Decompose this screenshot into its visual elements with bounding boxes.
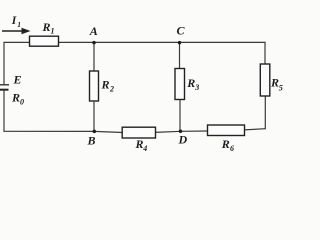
svg-text:6: 6 [230,144,234,153]
current arrow I1 [2,28,31,34]
node D [178,130,188,147]
svg-text:E: E [13,73,22,87]
svg-text:1: 1 [51,27,55,36]
node A [89,24,98,44]
svg-text:1: 1 [17,20,21,29]
svg-text:R: R [135,137,144,151]
svg-text:D: D [178,133,188,147]
wire: node C down to R3 [179,42,181,69]
label R0 (internal resistance) [11,91,24,107]
wire: bottom from left corner to R4 [3,131,123,132]
resistor R3 [175,69,199,100]
wire: node A down to R2 [93,42,95,71]
svg-text:A: A [89,24,98,38]
wire: left branch lower (source bottom) [3,90,5,132]
svg-text:R: R [11,91,20,105]
battery E (voltage source) [0,73,22,90]
svg-text:R: R [270,75,279,89]
resistor R5 [260,64,283,96]
svg-text:B: B [87,134,96,148]
wire: right branch upper (corner to R5) [264,42,266,65]
resistor R1 [30,20,59,46]
svg-text:R: R [186,76,195,90]
node C [177,23,186,44]
svg-text:4: 4 [142,144,147,153]
wire: R1 to top-right corner (through nodes A and C) [58,41,265,43]
wire: top-left corner to R1 [4,41,30,43]
svg-text:R: R [221,137,230,151]
label I1 [11,15,21,29]
svg-text:I: I [11,15,17,27]
wire: R3 down to node D [179,100,181,132]
svg-text:3: 3 [194,83,199,92]
svg-text:0: 0 [20,98,24,107]
wire: bottom from R6 to bottom-right corner [244,129,265,130]
wire: left branch upper (source top) [3,42,5,84]
wire: bottom between R4 and R6 (through node D) [155,131,208,132]
wire: right branch lower (R5 to corner) [264,96,266,129]
svg-text:R: R [42,20,51,34]
svg-text:5: 5 [279,83,283,92]
resistor R6 [208,125,245,153]
svg-text:C: C [177,23,186,37]
svg-text:R: R [101,78,110,92]
resistor R4 [122,127,155,153]
svg-text:2: 2 [109,85,114,94]
resistor R2 [90,71,115,101]
node B [87,130,97,148]
wire: R2 down to node B [93,101,95,132]
